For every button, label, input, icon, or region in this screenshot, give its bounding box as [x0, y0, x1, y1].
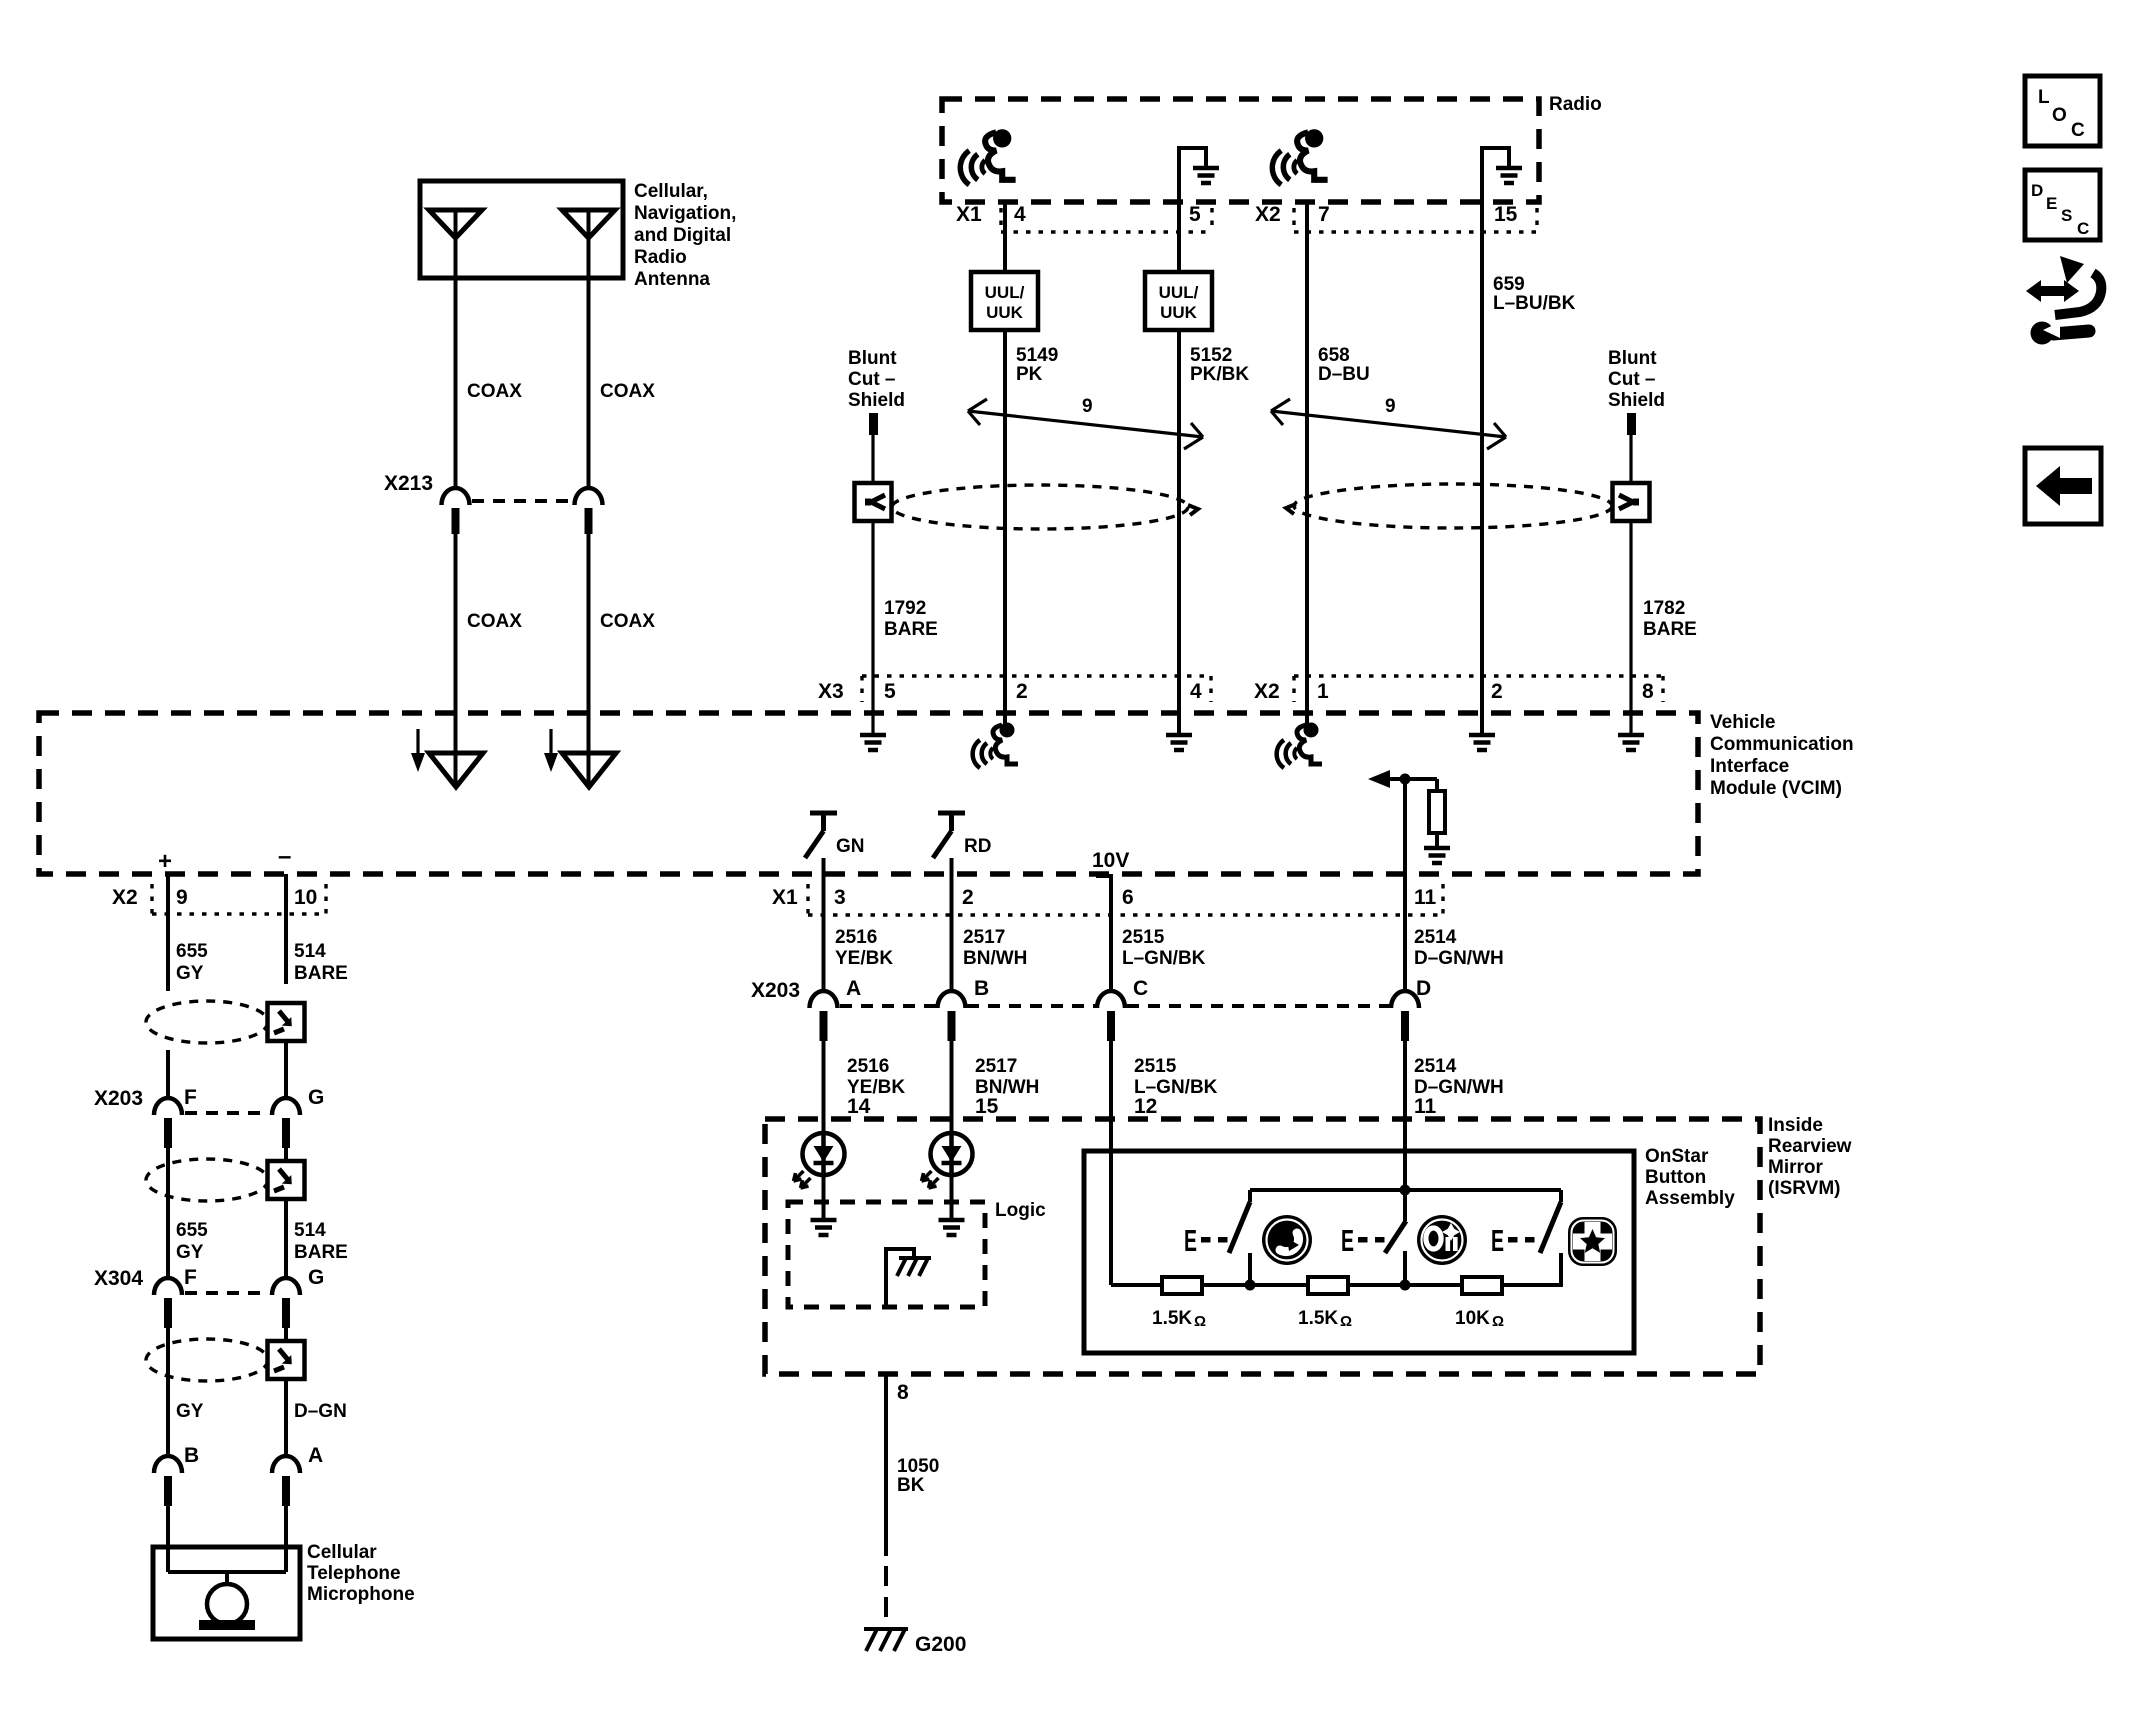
- svg-text:1.5K: 1.5K: [1298, 1308, 1338, 1329]
- wire LED1 to ground: [822, 1175, 826, 1218]
- svg-text:C: C: [2071, 120, 2085, 141]
- DESC navigation box: [2025, 170, 2100, 240]
- connector X213 label: [384, 472, 433, 495]
- junction dot bottom rail switch1: [1245, 1280, 1256, 1291]
- label X1 (VCIM bottom): [772, 886, 798, 909]
- svg-text:2516: 2516: [835, 927, 877, 948]
- svg-text:Assembly: Assembly: [1645, 1188, 1735, 1209]
- label E 2: [1341, 1223, 1354, 1258]
- label GN: [836, 836, 865, 857]
- svg-text:UUK: UUK: [986, 303, 1024, 322]
- pin 14 (ISRVM): [847, 1095, 871, 1118]
- label 5149 PK: [1016, 345, 1058, 385]
- label 2515 L-GN/BK lower: [1134, 1056, 1218, 1098]
- svg-text:GY: GY: [176, 963, 204, 984]
- label COAX right lower: [600, 611, 655, 632]
- X1 connector row dotted line: [808, 884, 1443, 915]
- ground under LED2: [939, 1220, 965, 1235]
- label 2515 L-GN/BK upper: [1122, 927, 1206, 969]
- VCIM speaker-mic icon 2: [1277, 723, 1322, 769]
- wire 659 L-BU/BK: [1480, 202, 1484, 676]
- svg-text:COAX: COAX: [600, 611, 655, 632]
- phone button icon: [1262, 1215, 1312, 1265]
- shield ellipse left pair: [892, 485, 1198, 529]
- connector X203 pin D: [1391, 977, 1431, 1041]
- connector X213 pin stub left: [452, 508, 460, 534]
- connector X203 pin G: [272, 1086, 324, 1148]
- svg-text:E: E: [1491, 1223, 1504, 1258]
- svg-text:BN/WH: BN/WH: [963, 948, 1027, 969]
- svg-text:Inside: Inside: [1768, 1115, 1823, 1136]
- svg-text:2: 2: [1016, 680, 1028, 703]
- svg-text:X203: X203: [751, 979, 800, 1002]
- svg-text:5: 5: [1189, 203, 1201, 226]
- label 1050 BK: [897, 1456, 939, 1496]
- pin 5 (radio X1): [1189, 203, 1201, 226]
- label 2514 D-GN/WH lower: [1414, 1056, 1504, 1098]
- svg-text:GY: GY: [176, 1242, 204, 1263]
- switch 1 (phone): [1229, 1190, 1250, 1285]
- wire 655 mid1: [166, 1050, 170, 1099]
- wire 1792 into VCIM: [871, 676, 874, 733]
- svg-text:2: 2: [1491, 680, 1503, 703]
- label Blunt Cut Shield left: [848, 348, 905, 411]
- switch 3 (emergency): [1540, 1190, 1561, 1285]
- svg-text:Blunt: Blunt: [848, 348, 897, 369]
- label 655 GY lower: [176, 1220, 208, 1263]
- label Vehicle Communication Interface Module (VCIM): [1710, 712, 1854, 799]
- wire COAX left upper: [454, 278, 458, 489]
- svg-text:PK: PK: [1016, 364, 1043, 385]
- connector X304 pin F: [154, 1266, 197, 1328]
- svg-text:+: +: [158, 848, 172, 875]
- label minus (VCIM X2 pin 10): [278, 843, 291, 870]
- wire 1050 BK: [884, 1374, 888, 1556]
- wire 514 mid1: [284, 1041, 288, 1099]
- svg-text:8: 8: [897, 1381, 909, 1404]
- svg-text:2514: 2514: [1414, 1056, 1457, 1077]
- Logic dashed box: [788, 1202, 985, 1307]
- svg-text:1: 1: [1317, 680, 1329, 703]
- VCIM internal pull-up: arrow, resistor, ground: [1368, 770, 1450, 863]
- shield drain terminal box right: [1613, 483, 1650, 521]
- label COAX left upper: [467, 381, 522, 402]
- wire pin12 inside button assembly: [1109, 1151, 1113, 1285]
- label 2516 YE/BK lower: [847, 1056, 905, 1098]
- svg-text:F: F: [184, 1086, 197, 1109]
- antenna feed arrow small right: [544, 729, 558, 772]
- wire 2517 below X203: [950, 1038, 954, 1133]
- wire 514 BARE upper: [284, 874, 288, 984]
- svg-text:B: B: [184, 1444, 199, 1467]
- junction dot top rail / wire 2514: [1400, 1185, 1411, 1196]
- svg-text:514: 514: [294, 1220, 326, 1241]
- svg-text:12: 12: [1134, 1095, 1157, 1118]
- svg-text:OnStar: OnStar: [1645, 1146, 1709, 1167]
- svg-text:X304: X304: [94, 1267, 143, 1290]
- label 1792 BARE: [884, 598, 938, 640]
- svg-text:BARE: BARE: [1643, 619, 1697, 640]
- svg-text:9: 9: [176, 886, 188, 909]
- pin 4 (radio X1): [1014, 203, 1026, 226]
- svg-text:9: 9: [1385, 396, 1396, 417]
- antenna feed arrow small left: [411, 729, 425, 772]
- wire 1782 into VCIM: [1629, 676, 1632, 733]
- wire 655 GY upper: [166, 874, 170, 991]
- wire 2517 from RD switch: [950, 858, 954, 992]
- pin 15 (ISRVM): [975, 1095, 999, 1118]
- svg-text:Ω: Ω: [1194, 1313, 1206, 1330]
- svg-text:D–GN: D–GN: [294, 1401, 347, 1422]
- label + (VCIM X2 pin 9): [158, 848, 172, 875]
- svg-text:Button: Button: [1645, 1167, 1706, 1188]
- microphone element: [168, 1572, 286, 1630]
- svg-text:C: C: [2077, 219, 2089, 238]
- logic chassis ground symbol: [897, 1258, 931, 1276]
- switch symbol RD: [933, 813, 965, 858]
- svg-text:UUL/: UUL/: [1159, 283, 1199, 302]
- svg-text:Microphone: Microphone: [307, 1584, 415, 1605]
- connector X203 left dashed link: [185, 1111, 269, 1115]
- pin 2 (X1): [962, 886, 974, 909]
- VCIM speaker-mic icon 1: [973, 723, 1018, 769]
- svg-text:D: D: [1416, 977, 1431, 1000]
- svg-text:X2: X2: [1255, 203, 1281, 226]
- wire GY segment: [166, 1325, 170, 1457]
- Cellular Telephone Microphone box: [153, 1547, 300, 1639]
- label 2514 D-GN/WH upper: [1414, 927, 1504, 969]
- OnStar button icon: [1417, 1215, 1467, 1265]
- connector X203 pin B: [938, 977, 990, 1041]
- label 658 D-BU: [1318, 345, 1370, 385]
- wire 1792 BARE: [871, 521, 874, 676]
- wire 5152 into VCIM: [1177, 676, 1181, 733]
- svg-text:A: A: [308, 1444, 323, 1467]
- svg-text:G: G: [308, 1086, 324, 1109]
- svg-text:E: E: [1184, 1223, 1197, 1258]
- svg-text:L–BU/BK: L–BU/BK: [1493, 293, 1576, 314]
- svg-text:UUK: UUK: [1160, 303, 1198, 322]
- svg-text:15: 15: [975, 1095, 999, 1118]
- label X203: [751, 979, 800, 1002]
- wire 658 into VCIM: [1305, 676, 1309, 726]
- antenna symbol 2: [562, 210, 615, 278]
- svg-text:10: 10: [294, 886, 317, 909]
- svg-text:Vehicle: Vehicle: [1710, 712, 1776, 733]
- svg-text:X3: X3: [818, 680, 844, 703]
- wire 514 mid3: [284, 1199, 288, 1279]
- wire 5149 PK: [1003, 330, 1007, 676]
- wire 1782 shield upper: [1629, 435, 1632, 482]
- wire 2514 below X203: [1403, 1038, 1407, 1190]
- VCIM ground for 1792 shield: [860, 735, 886, 750]
- microphone connector pin B: [154, 1444, 199, 1506]
- radio speaker-mic icon 2: [1272, 129, 1327, 185]
- pin 6 (X1): [1122, 886, 1134, 909]
- label 655 GY upper: [176, 941, 208, 984]
- svg-text:BARE: BARE: [884, 619, 938, 640]
- svg-text:1.5K: 1.5K: [1152, 1308, 1192, 1329]
- shield drain box 2 (left column): [268, 1161, 305, 1199]
- svg-text:3: 3: [834, 886, 846, 909]
- svg-text:655: 655: [176, 941, 208, 962]
- shield drain terminal box left: [855, 483, 892, 521]
- connector X213 arc left: [442, 488, 470, 505]
- connector X304 pin G: [272, 1266, 324, 1328]
- label Logic: [995, 1200, 1046, 1221]
- svg-text:X2: X2: [112, 886, 138, 909]
- svg-text:Logic: Logic: [995, 1200, 1046, 1221]
- radio connector row dotted line: [1001, 208, 1537, 232]
- antenna symbol 1: [429, 210, 482, 278]
- back arrow box: [2025, 448, 2101, 524]
- wire 5149 upper segment: [1003, 202, 1007, 272]
- svg-text:F: F: [184, 1266, 197, 1289]
- svg-text:Telephone: Telephone: [307, 1563, 401, 1584]
- svg-text:2514: 2514: [1414, 927, 1457, 948]
- svg-text:Mirror: Mirror: [1768, 1157, 1824, 1178]
- svg-text:D–BU: D–BU: [1318, 364, 1370, 385]
- label X2 (left): [112, 886, 138, 909]
- wire 1792 shield upper: [871, 435, 874, 482]
- svg-text:11: 11: [1414, 1095, 1437, 1118]
- svg-text:9: 9: [1082, 396, 1093, 417]
- svg-text:4: 4: [1190, 680, 1202, 703]
- svg-text:15: 15: [1494, 203, 1518, 226]
- svg-text:Ω: Ω: [1492, 1313, 1504, 1330]
- pin 12 (ISRVM): [1134, 1095, 1157, 1118]
- svg-text:(ISRVM): (ISRVM): [1768, 1178, 1840, 1199]
- svg-text:2: 2: [962, 886, 974, 909]
- VCIM connector row dotted line: [862, 676, 1663, 702]
- label E 1: [1184, 1223, 1197, 1258]
- VCIM ground for 1782 shield: [1618, 735, 1644, 750]
- svg-text:X2: X2: [1254, 680, 1280, 703]
- svg-text:–: –: [278, 843, 291, 870]
- svg-text:Antenna: Antenna: [634, 269, 710, 290]
- wire 1050 dashed tail: [884, 1566, 888, 1624]
- svg-text:PK/BK: PK/BK: [1190, 364, 1249, 385]
- Radio dashed box: [942, 99, 1539, 202]
- svg-text:X1: X1: [772, 886, 798, 909]
- shield ellipse right pair: [1286, 484, 1612, 528]
- svg-text:Shield: Shield: [848, 390, 905, 411]
- resistor 1.5K second: [1308, 1277, 1348, 1294]
- label 659 L-BU/BK: [1493, 274, 1576, 314]
- wire COAX right lower: [587, 534, 591, 752]
- svg-text:UUL/: UUL/: [985, 283, 1025, 302]
- svg-text:5149: 5149: [1016, 345, 1058, 366]
- hand with wrench icon: [2026, 256, 2101, 345]
- svg-text:2517: 2517: [975, 1056, 1017, 1077]
- wire 2515 below X203: [1109, 1038, 1113, 1151]
- label 5152 PK/BK: [1190, 345, 1249, 385]
- antenna assembly box: [420, 181, 623, 278]
- radio speaker-mic icon 1: [960, 129, 1015, 185]
- svg-text:Shield: Shield: [1608, 390, 1665, 411]
- svg-text:X203: X203: [94, 1087, 143, 1110]
- label Inside Rearview Mirror (ISRVM): [1768, 1115, 1852, 1199]
- label X2 (VCIM): [1254, 680, 1280, 703]
- wire 1782 BARE: [1629, 521, 1632, 676]
- LED 1: [794, 1133, 845, 1188]
- VCIM ground for 5152: [1166, 735, 1192, 750]
- switch 2 (OnStar) on wire 2514: [1385, 1190, 1406, 1285]
- label Cellular Telephone Microphone: [307, 1542, 415, 1605]
- wire 5152 PK/BK: [1177, 330, 1181, 676]
- svg-text:658: 658: [1318, 345, 1350, 366]
- svg-text:2517: 2517: [963, 927, 1005, 948]
- OnStar Button Assembly box: [1084, 1151, 1634, 1353]
- shield drain box 1 (left column): [268, 1003, 305, 1041]
- svg-text:8: 8: [1642, 680, 1654, 703]
- svg-text:1792: 1792: [884, 598, 926, 619]
- label: Cellular, Navigation, and Digital Radio Antenna: [634, 181, 736, 290]
- label X3 (VCIM): [818, 680, 844, 703]
- pin 2 (VCIM X2): [1491, 680, 1503, 703]
- microphone connector pin A: [272, 1444, 323, 1506]
- svg-text:COAX: COAX: [600, 381, 655, 402]
- shield ellipse 1 (left column): [146, 1001, 268, 1043]
- label GY: [176, 1401, 204, 1422]
- svg-text:L–GN/BK: L–GN/BK: [1122, 948, 1206, 969]
- svg-text:1782: 1782: [1643, 598, 1685, 619]
- LED 2: [922, 1133, 973, 1188]
- wire into mic box right: [284, 1503, 288, 1572]
- pin 7 (radio X2): [1318, 203, 1330, 226]
- label OnStar Button Assembly: [1645, 1146, 1735, 1209]
- svg-text:S: S: [2061, 206, 2072, 225]
- X2 connector row dotted line (left): [152, 884, 326, 914]
- svg-text:6: 6: [1122, 886, 1134, 909]
- svg-text:RD: RD: [964, 836, 991, 857]
- radio ground symbol 1: [1193, 168, 1219, 183]
- svg-text:10V: 10V: [1092, 849, 1129, 872]
- svg-text:Radio: Radio: [1549, 94, 1602, 115]
- blunt cut tick left: [869, 413, 878, 435]
- shield ellipse 2 (left column): [146, 1159, 268, 1201]
- label Radio: [1549, 94, 1602, 115]
- label 1.5K ohm second: [1298, 1308, 1352, 1330]
- label 2517 BN/WH upper: [963, 927, 1027, 969]
- pin 2 (VCIM X3): [1016, 680, 1028, 703]
- resistor 1.5K first: [1162, 1277, 1202, 1294]
- svg-text:E: E: [2046, 194, 2057, 213]
- pin 8 (VCIM X2): [1642, 680, 1654, 703]
- wire D-GN segment upper: [284, 1325, 288, 1341]
- svg-text:L: L: [2038, 87, 2050, 108]
- pin 11 (ISRVM): [1414, 1095, 1437, 1118]
- ground G200 chassis symbol: [864, 1629, 908, 1651]
- button assembly bottom rail: [1111, 1283, 1563, 1287]
- pin 15 (radio X2): [1494, 203, 1518, 226]
- label G200: [915, 1633, 966, 1656]
- label Blunt Cut Shield right: [1608, 348, 1665, 411]
- connector X203 pin A: [810, 977, 862, 1041]
- splice box UUL/UUK 2: [1145, 272, 1212, 330]
- svg-text:X1: X1: [956, 203, 982, 226]
- svg-text:2516: 2516: [847, 1056, 889, 1077]
- pin 10 (X2 left): [294, 886, 317, 909]
- wire COAX right upper: [587, 278, 591, 489]
- svg-text:Navigation,: Navigation,: [634, 203, 736, 224]
- svg-text:Cut –: Cut –: [848, 369, 896, 390]
- label 10V: [1092, 849, 1129, 872]
- svg-text:514: 514: [294, 941, 326, 962]
- svg-text:O: O: [2052, 105, 2067, 126]
- button assembly top rail: [1250, 1188, 1561, 1192]
- label E 3: [1491, 1223, 1504, 1258]
- wire 2515 from 10V: [1096, 876, 1111, 992]
- LOC navigation box: [2025, 76, 2100, 146]
- label RD: [964, 836, 991, 857]
- svg-text:5152: 5152: [1190, 345, 1232, 366]
- pin 3 (X1): [834, 886, 846, 909]
- VCIM dashed box: [39, 713, 1698, 874]
- svg-text:655: 655: [176, 1220, 208, 1241]
- pin 1 (VCIM X2): [1317, 680, 1329, 703]
- label 514 BARE lower: [294, 1220, 348, 1263]
- svg-text:Rearview: Rearview: [1768, 1136, 1852, 1157]
- connector X213 pin stub right: [585, 508, 593, 534]
- emergency button icon: [1568, 1217, 1617, 1266]
- connector X203 pin F: [154, 1086, 197, 1148]
- VCIM ground for 659: [1469, 735, 1495, 750]
- label 2516 YE/BK upper: [835, 927, 893, 969]
- wire into mic box left: [166, 1503, 170, 1572]
- wire 2516 from GN switch: [822, 858, 826, 992]
- wire 2514 below VCIM: [1403, 874, 1407, 992]
- svg-text:GN: GN: [836, 836, 865, 857]
- wire 658 D-BU: [1305, 202, 1309, 676]
- radio ground hook wire 2: [1482, 148, 1509, 202]
- antenna termination triangle left: [429, 752, 483, 787]
- wire LED2 to ground: [950, 1175, 954, 1218]
- E dashes 1: [1201, 1237, 1228, 1243]
- twisted pair marker 9 right: [1271, 396, 1506, 449]
- svg-text:Communication: Communication: [1710, 734, 1854, 755]
- svg-text:Cellular: Cellular: [307, 1542, 377, 1563]
- wire 2516 below X203: [822, 1038, 826, 1133]
- svg-text:BARE: BARE: [294, 963, 348, 984]
- label 10K ohm: [1455, 1308, 1504, 1330]
- svg-text:X213: X213: [384, 472, 433, 495]
- shield drain box 3 (left column): [268, 1341, 305, 1379]
- connector X203 dashed line: [840, 1004, 1389, 1008]
- svg-text:1050: 1050: [897, 1456, 939, 1477]
- svg-text:G: G: [308, 1266, 324, 1289]
- svg-text:BARE: BARE: [294, 1242, 348, 1263]
- svg-text:Blunt: Blunt: [1608, 348, 1657, 369]
- antenna termination triangle right: [562, 752, 616, 787]
- label 2517 BN/WH lower: [975, 1056, 1039, 1098]
- E dashes 3: [1508, 1237, 1535, 1243]
- label X2 (radio): [1255, 203, 1281, 226]
- svg-text:Interface: Interface: [1710, 756, 1789, 777]
- svg-text:E: E: [1341, 1223, 1354, 1258]
- svg-text:Ω: Ω: [1340, 1313, 1352, 1330]
- label X203 (left): [94, 1087, 143, 1110]
- E dashes 2: [1358, 1237, 1385, 1243]
- label X1 (radio): [956, 203, 982, 226]
- svg-text:COAX: COAX: [467, 611, 522, 632]
- wire 5152 upper segment: [1177, 202, 1181, 272]
- wire 5149 into VCIM: [1003, 676, 1007, 726]
- svg-text:11: 11: [1414, 886, 1437, 909]
- connector X203 pin C: [1097, 977, 1148, 1041]
- pin 8 label (logic): [897, 1381, 909, 1404]
- svg-text:Cut –: Cut –: [1608, 369, 1656, 390]
